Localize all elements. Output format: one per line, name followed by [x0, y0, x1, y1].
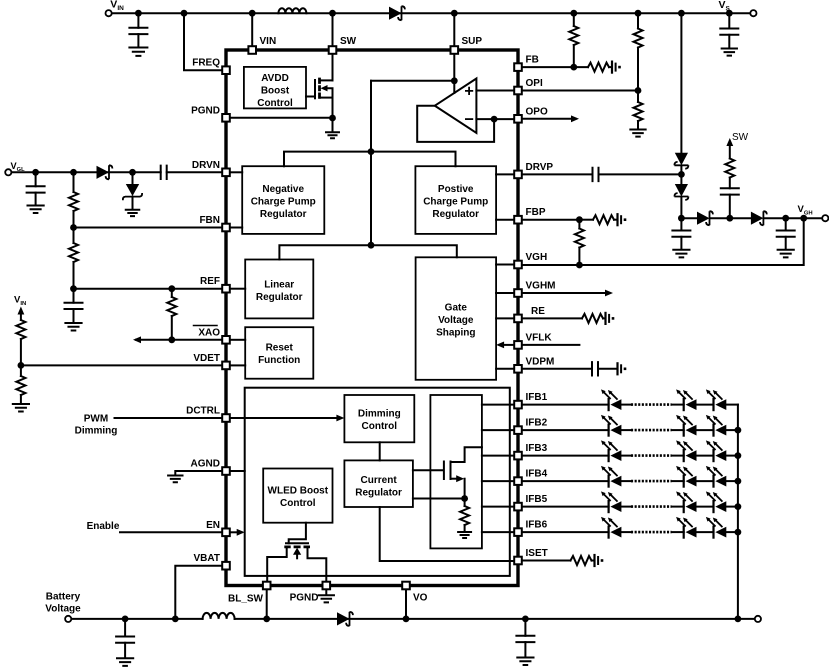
- svg-text:DRVP: DRVP: [526, 162, 554, 173]
- wire LED string 5 dashed: [631, 505, 672, 508]
- wire top rail VIN to VS: [112, 12, 749, 14]
- svg-text:VBAT: VBAT: [194, 553, 220, 564]
- pin DRVP: [514, 171, 522, 179]
- node zener clamp junction: [129, 169, 136, 176]
- capacitor VDPM end: [618, 363, 627, 374]
- svg-text:FBN: FBN: [199, 215, 220, 226]
- svg-text:Gate: Gate: [445, 303, 468, 314]
- terminal Battery Voltage: [45, 592, 81, 623]
- node LED bus row 4 junction: [735, 478, 742, 485]
- label pin VGH: [526, 252, 548, 263]
- capacitor VGH output: [777, 218, 795, 257]
- pin DRVN: [222, 169, 230, 177]
- label pin ISET: [526, 548, 548, 559]
- node SUP pin junction: [451, 10, 458, 45]
- node OPI divider junction: [635, 87, 642, 94]
- pin IFB4: [514, 477, 522, 485]
- wire IFB2 to LED string: [524, 429, 609, 431]
- wire SW pin to Q1 drain: [332, 56, 334, 81]
- svg-text:Charge Pump: Charge Pump: [423, 197, 488, 208]
- wire VDPM pin to GVS: [496, 368, 512, 370]
- node BL_SW junction: [263, 616, 270, 623]
- zener diode VGL clamp: [123, 172, 142, 216]
- pin FREQ: [222, 66, 230, 74]
- svg-text:VIN: VIN: [14, 295, 26, 307]
- LED D15 string 2 last: [706, 415, 726, 436]
- ground current sense: [458, 532, 471, 538]
- svg-text:BL_SW: BL_SW: [228, 594, 264, 605]
- node VGH output cap junction: [782, 215, 789, 222]
- pin ISET: [514, 557, 522, 565]
- label pin OPO: [526, 106, 548, 117]
- svg-text:OPO: OPO: [526, 106, 548, 117]
- ground PGND internal: [326, 118, 339, 138]
- node REF pullup junction: [168, 285, 175, 292]
- svg-text:SW: SW: [340, 36, 357, 47]
- LED D23 string 5 middle: [676, 491, 696, 512]
- wire VGHM pin to GVS: [496, 292, 512, 294]
- wire LED string 5 segment c: [697, 506, 714, 508]
- capacitor C flying DRVN: [161, 166, 167, 179]
- pin PGND: [222, 114, 230, 122]
- capacitor ISET end: [595, 555, 604, 566]
- svg-text:ISET: ISET: [526, 548, 548, 559]
- wire FBP pin to PCP: [496, 219, 512, 221]
- label pin EN: [206, 520, 220, 531]
- wire SW branch arrow: [726, 138, 733, 159]
- node FBN junction: [70, 224, 77, 231]
- svg-text:Battery: Battery: [46, 592, 81, 603]
- label pin DCTRL: [186, 406, 220, 417]
- svg-text:SW: SW: [732, 132, 749, 143]
- wire LED string 6 dashed: [631, 531, 672, 534]
- node XAO junction: [168, 336, 175, 343]
- label PWM Dimming: [75, 414, 118, 437]
- wire LED string 4 segment: [621, 480, 631, 482]
- wire LED string 5 to bus: [726, 506, 738, 508]
- label pin IFB2: [526, 418, 548, 429]
- pin AGND: [222, 467, 230, 475]
- pin EN: [222, 529, 230, 537]
- wire charge pump supply: [284, 152, 456, 167]
- svg-text:Control: Control: [362, 421, 398, 432]
- wire LED string 5 segment: [621, 506, 631, 508]
- node SW cap junction: [726, 215, 733, 222]
- wire VBAT to battery rail: [175, 566, 220, 619]
- label pin VFLK: [526, 332, 553, 343]
- node bus charge pump junction: [368, 148, 375, 155]
- label pin FBN: [199, 215, 220, 226]
- svg-text:Control: Control: [280, 498, 316, 509]
- pin VDET: [222, 362, 230, 370]
- wire REF pin to Linear Regulator: [232, 288, 246, 290]
- svg-text:REF: REF: [200, 276, 220, 287]
- wire VDET pin to Reset Function: [232, 364, 246, 366]
- wire LED string 6 segment c: [697, 531, 714, 533]
- svg-text:Boost: Boost: [261, 86, 290, 97]
- diode D7 VGH doubler output: [751, 211, 767, 225]
- label pin FBP: [526, 207, 546, 218]
- pin XAO: [222, 336, 230, 344]
- wire FB pin to divider: [524, 66, 574, 68]
- node Q3 source junction: [461, 495, 468, 502]
- wire VGH feedback to pin: [524, 218, 804, 265]
- node bus regulator junction: [368, 242, 375, 249]
- wire VGH pin to GVS: [496, 264, 512, 266]
- diode D3 WLED boost rectifier: [337, 612, 353, 626]
- svg-text:Postive: Postive: [438, 184, 474, 195]
- svg-text:VO: VO: [413, 593, 428, 604]
- wire RE pin to GVS: [496, 317, 512, 319]
- capacitor FBP feedforward end: [618, 214, 627, 225]
- pin RE: [514, 315, 522, 323]
- wire Enable to EN pin: [120, 531, 221, 533]
- node VGH output junction: [800, 215, 807, 222]
- node SW pin junction: [329, 10, 336, 45]
- wire VGL row segment: [12, 171, 161, 173]
- resistor VDET divider upper: [16, 320, 25, 365]
- wire sink array to IFB4: [482, 480, 513, 482]
- svg-text:Shaping: Shaping: [436, 328, 475, 339]
- capacitor VDPM series: [524, 362, 617, 375]
- label V_IN sense: [14, 295, 26, 307]
- block current sink array: [430, 395, 482, 548]
- wire XAO output with arrow: [133, 336, 221, 343]
- pin SW: [329, 46, 337, 54]
- transistor Q2 WLED boost FET: [267, 523, 326, 581]
- capacitor RE end: [606, 313, 615, 324]
- svg-text:RE: RE: [531, 306, 545, 317]
- pin BL_SW: [263, 582, 271, 590]
- capacitor REF filter: [65, 289, 83, 331]
- wire op-amp feedback loop: [417, 106, 494, 142]
- resistor OPI divider upper: [634, 13, 643, 90]
- wire SUP to op-amp: [453, 56, 455, 93]
- label pin PGND: [191, 105, 220, 116]
- svg-text:VDET: VDET: [193, 353, 220, 364]
- wire DRVP pin to PCP: [496, 173, 512, 175]
- pin OPI: [514, 87, 522, 95]
- wire LED string 3 dashed: [631, 454, 672, 457]
- LED D16 string 3 first: [601, 440, 621, 461]
- capacitor VS output: [720, 13, 738, 55]
- node LED anode bus junction: [735, 616, 742, 623]
- diode D6 VGH doubler: [697, 211, 713, 225]
- wire REF to pin: [74, 288, 221, 290]
- block Linear Regulator: [245, 260, 313, 319]
- svg-text:Charge Pump: Charge Pump: [251, 197, 316, 208]
- node VS output cap junction: [726, 10, 733, 17]
- node charge pump supply junction: [678, 10, 685, 17]
- wire SUP to internal bus: [371, 80, 454, 82]
- label pin OPI: [526, 78, 543, 89]
- label pin FREQ: [192, 58, 220, 69]
- svg-text:Dimming: Dimming: [75, 426, 118, 437]
- svg-text:IFB4: IFB4: [526, 469, 548, 480]
- label pin VDET: [193, 353, 220, 364]
- svg-text:VGHM: VGHM: [526, 281, 556, 292]
- node LED bus row 2 junction: [735, 427, 742, 434]
- diode D4 charge pump: [674, 153, 688, 169]
- node charge pump output junction: [678, 215, 685, 222]
- wire LED string 3 segment c: [697, 455, 714, 457]
- wire Q1 source to PGND: [332, 98, 334, 118]
- capacitor VO output: [516, 619, 534, 665]
- svg-text:Linear: Linear: [264, 280, 294, 291]
- wire LED string 2 segment: [621, 429, 631, 431]
- block Negative Charge Pump Regulator: [242, 166, 324, 234]
- block Dimming Control: [344, 395, 414, 442]
- block Current Regulator: [344, 460, 413, 507]
- svg-text:FREQ: FREQ: [192, 58, 220, 69]
- wire LED anode bus: [737, 405, 739, 619]
- pin VGHM: [514, 289, 522, 297]
- svg-text:XAO: XAO: [198, 327, 220, 338]
- wire LED string 1 segment b: [672, 404, 684, 406]
- LED D11 string 1 middle: [676, 389, 696, 410]
- wire IFB6 to LED string: [524, 531, 609, 533]
- svg-text:Voltage: Voltage: [438, 315, 474, 326]
- label pin IFB3: [526, 443, 548, 454]
- terminal V_S output: [719, 0, 757, 16]
- label pin BL_SW: [228, 594, 264, 605]
- node VIN pin junction: [249, 10, 256, 45]
- wire LED string 3 segment b: [672, 455, 684, 457]
- svg-text:Enable: Enable: [87, 521, 120, 532]
- resistor RE series: [524, 314, 605, 323]
- svg-text:Regulator: Regulator: [355, 488, 402, 499]
- label pin IFB1: [526, 392, 548, 403]
- wire PWM to DCTRL pin: [115, 417, 221, 419]
- label pin SW top: [340, 36, 357, 47]
- capacitor charge pump reservoir: [672, 218, 690, 257]
- LED D17 string 3 middle: [676, 440, 696, 461]
- transistor Q1 AVDD boost FET: [306, 78, 333, 99]
- resistor FBP divider: [575, 220, 584, 265]
- capacitor DRVP flying: [524, 168, 682, 181]
- wire op-amp plus input to OPI: [476, 90, 512, 92]
- wire VGHM output arrow: [524, 290, 614, 297]
- pin VIN: [248, 46, 256, 54]
- node FBP divider junction: [576, 216, 583, 223]
- pin VFLK: [514, 341, 522, 349]
- IC U1 outline: [226, 50, 518, 586]
- wire current sense to regulator: [413, 498, 465, 500]
- LED D19 string 4 first: [601, 466, 621, 487]
- node FREQ branch junction: [181, 10, 188, 17]
- svg-text:IFB2: IFB2: [526, 418, 548, 429]
- svg-text:Regulator: Regulator: [256, 292, 303, 303]
- LED D24 string 5 last: [706, 491, 726, 512]
- wire Dimming to Current Regulator: [379, 442, 381, 460]
- wire sink array to IFB2: [482, 429, 513, 431]
- svg-text:VGH: VGH: [526, 252, 548, 263]
- node LED bus row 6 junction: [735, 529, 742, 536]
- wire LED string 2 dashed: [631, 429, 672, 432]
- svg-text:VDPM: VDPM: [526, 356, 555, 367]
- wire VIN sense arrow: [18, 307, 25, 321]
- LED D22 string 5 first: [601, 491, 621, 512]
- capacitor battery input: [116, 619, 134, 666]
- wire AGND to ground: [168, 471, 220, 482]
- wire PGND pin to Q1: [232, 117, 333, 119]
- ground OPI divider: [630, 130, 645, 137]
- node FB divider top junction: [570, 10, 577, 17]
- pin FBP: [514, 216, 522, 224]
- capacitor VIN input bypass: [129, 13, 147, 56]
- wire VFLK input: [524, 344, 580, 346]
- node VGL output cap junction: [32, 169, 39, 176]
- node SUP internal junction: [451, 77, 458, 84]
- svg-text:WLED Boost: WLED Boost: [268, 486, 329, 497]
- wire LED string 4 dashed: [631, 480, 672, 483]
- node VGL feedback divider junction: [70, 169, 77, 176]
- svg-text:Negative: Negative: [262, 184, 304, 195]
- wire LED string 4 to bus: [726, 480, 738, 482]
- node FBP to VGH line junction: [576, 262, 583, 269]
- wire OPI pin to divider: [524, 90, 639, 92]
- label pin REF: [200, 276, 220, 287]
- block Gate Voltage Shaping: [416, 257, 497, 380]
- capacitor SW flying: [721, 188, 739, 218]
- svg-text:Reset: Reset: [266, 343, 294, 354]
- resistor XAO pullup: [167, 289, 176, 340]
- diode D1 boost rectifier: [389, 6, 405, 20]
- LED D26 string 6 middle: [676, 517, 696, 538]
- capacitor FB feedforward end: [612, 62, 621, 73]
- wire battery rail left: [72, 618, 202, 620]
- svg-text:IFB1: IFB1: [526, 392, 548, 403]
- wire sink array to IFB5: [482, 506, 513, 508]
- svg-text:Function: Function: [258, 355, 300, 366]
- resistor FBP feedforward: [579, 215, 616, 224]
- pin VO: [402, 582, 410, 590]
- label pin VIN: [260, 36, 277, 47]
- resistor VDET divider lower: [16, 365, 25, 403]
- block Reset Function: [245, 327, 313, 379]
- diode D5 charge pump: [674, 184, 688, 200]
- ground PGND bottom pin: [319, 591, 334, 602]
- pin PGND bottom: [323, 582, 331, 590]
- svg-text:FBP: FBP: [526, 207, 546, 218]
- wire LED string 1 to bus: [726, 404, 738, 406]
- wire LED string 2 to bus: [726, 429, 738, 431]
- svg-text:AGND: AGND: [191, 459, 220, 470]
- svg-text:IFB5: IFB5: [526, 494, 548, 505]
- svg-text:PGND: PGND: [290, 593, 319, 604]
- LED D13 string 2 first: [601, 415, 621, 436]
- label pin IFB6: [526, 520, 548, 531]
- wire IFB1 to LED string: [524, 404, 609, 406]
- svg-text:PGND: PGND: [191, 105, 220, 116]
- wire LED string 6 segment: [621, 531, 631, 533]
- inductor L2 WLED boost: [203, 613, 235, 619]
- wire DRVN to pin: [167, 171, 221, 173]
- svg-text:VS: VS: [719, 0, 731, 12]
- wire VDET to pin: [21, 364, 221, 366]
- wire to diode D6: [681, 217, 697, 219]
- node LED bus row 5 junction: [735, 503, 742, 510]
- svg-text:VGH: VGH: [798, 204, 813, 216]
- node LED bus row 3 junction: [735, 452, 742, 459]
- wire LED string 6 to bus: [726, 531, 738, 533]
- node VO junction: [403, 616, 410, 623]
- resistor FBN divider upper: [69, 172, 78, 227]
- wire LED string 2 segment b: [672, 429, 684, 431]
- block WLED Boost Control: [263, 469, 332, 523]
- wire Current Regulator to ISET: [380, 507, 513, 561]
- pin SUP: [451, 46, 459, 54]
- pin VBAT: [222, 562, 230, 570]
- pin VDPM: [514, 365, 522, 373]
- resistor OPI divider lower: [634, 91, 643, 130]
- wire AGND pin stub: [232, 470, 245, 472]
- label pin SUP: [462, 36, 483, 47]
- pin VGH: [514, 261, 522, 269]
- LED D14 string 2 middle: [676, 415, 696, 436]
- wire sink array to IFB6: [482, 531, 513, 533]
- wire charge pump column: [680, 13, 682, 153]
- LED D18 string 3 last: [706, 440, 726, 461]
- wire LED string 4 segment c: [697, 480, 714, 482]
- wire to VGH doubler node: [680, 198, 682, 218]
- svg-text:Voltage: Voltage: [45, 604, 81, 615]
- wire VFLK pin to GVS with arrow: [496, 342, 512, 349]
- wire LED string 1 segment: [621, 404, 631, 406]
- wire DRVN pin to NCP: [232, 171, 243, 173]
- svg-text:PWM: PWM: [84, 414, 108, 425]
- label pin VBAT: [194, 553, 220, 564]
- node VDET junction: [18, 362, 25, 369]
- svg-text:IFB6: IFB6: [526, 520, 548, 531]
- LED D12 string 1 last: [706, 389, 726, 410]
- label pin VO: [413, 593, 428, 604]
- node VBAT branch junction: [172, 616, 179, 623]
- LED D25 string 6 first: [601, 517, 621, 538]
- label pin IFB5: [526, 494, 548, 505]
- inductor L1 boost: [278, 8, 306, 13]
- node battery input cap junction: [122, 616, 129, 623]
- wire IFB4 to LED string: [524, 480, 609, 482]
- svg-text:Current: Current: [361, 475, 398, 486]
- svg-text:IFB3: IFB3: [526, 443, 548, 454]
- terminal VO output right: [755, 616, 761, 622]
- pin IFB6: [514, 528, 522, 536]
- wire sink array to IFB3: [482, 455, 513, 457]
- wire XAO pin to Reset Function: [232, 339, 246, 341]
- resistor FBN divider lower: [69, 228, 78, 289]
- svg-text:AVDD: AVDD: [261, 73, 289, 84]
- wire D6 to SW cap node: [711, 217, 730, 219]
- svg-text:SUP: SUP: [462, 36, 483, 47]
- wire op-amp minus to OPO: [476, 118, 512, 120]
- svg-text:Dimming: Dimming: [358, 409, 401, 420]
- wire FBP pin to divider: [524, 219, 580, 221]
- terminal V_IN input: [106, 0, 125, 16]
- pin IFB1: [514, 401, 522, 409]
- node op-amp feedback junction: [491, 116, 498, 123]
- wire internal supply bus: [370, 81, 372, 245]
- terminal V_GL output: [5, 161, 25, 176]
- wire LED string 3 to bus: [726, 455, 738, 457]
- label pin FB: [526, 55, 539, 66]
- label pin VDPM: [526, 356, 555, 367]
- pin OPO: [514, 115, 522, 123]
- wire sink array to IFB1: [482, 404, 513, 406]
- svg-text:Control: Control: [257, 98, 293, 109]
- wire FBN to pin: [74, 227, 221, 229]
- LED D10 string 1 first: [601, 389, 621, 410]
